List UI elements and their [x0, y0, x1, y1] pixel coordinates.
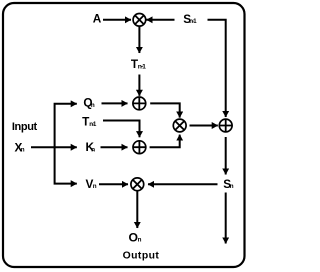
- svg-text:n-1: n-1: [138, 63, 146, 70]
- svg-text:n: n: [138, 237, 142, 244]
- svg-text:n: n: [91, 102, 95, 109]
- svg-text:Output: Output: [123, 251, 160, 262]
- svg-text:n: n: [21, 147, 25, 154]
- svg-text:A: A: [93, 12, 102, 26]
- svg-text:n: n: [93, 183, 97, 190]
- svg-text:n-1: n-1: [89, 121, 97, 128]
- svg-text:n: n: [91, 146, 95, 153]
- svg-text:n-1: n-1: [189, 18, 197, 25]
- svg-text:O: O: [129, 230, 138, 244]
- svg-text:Input: Input: [12, 121, 38, 133]
- svg-text:n: n: [230, 183, 234, 190]
